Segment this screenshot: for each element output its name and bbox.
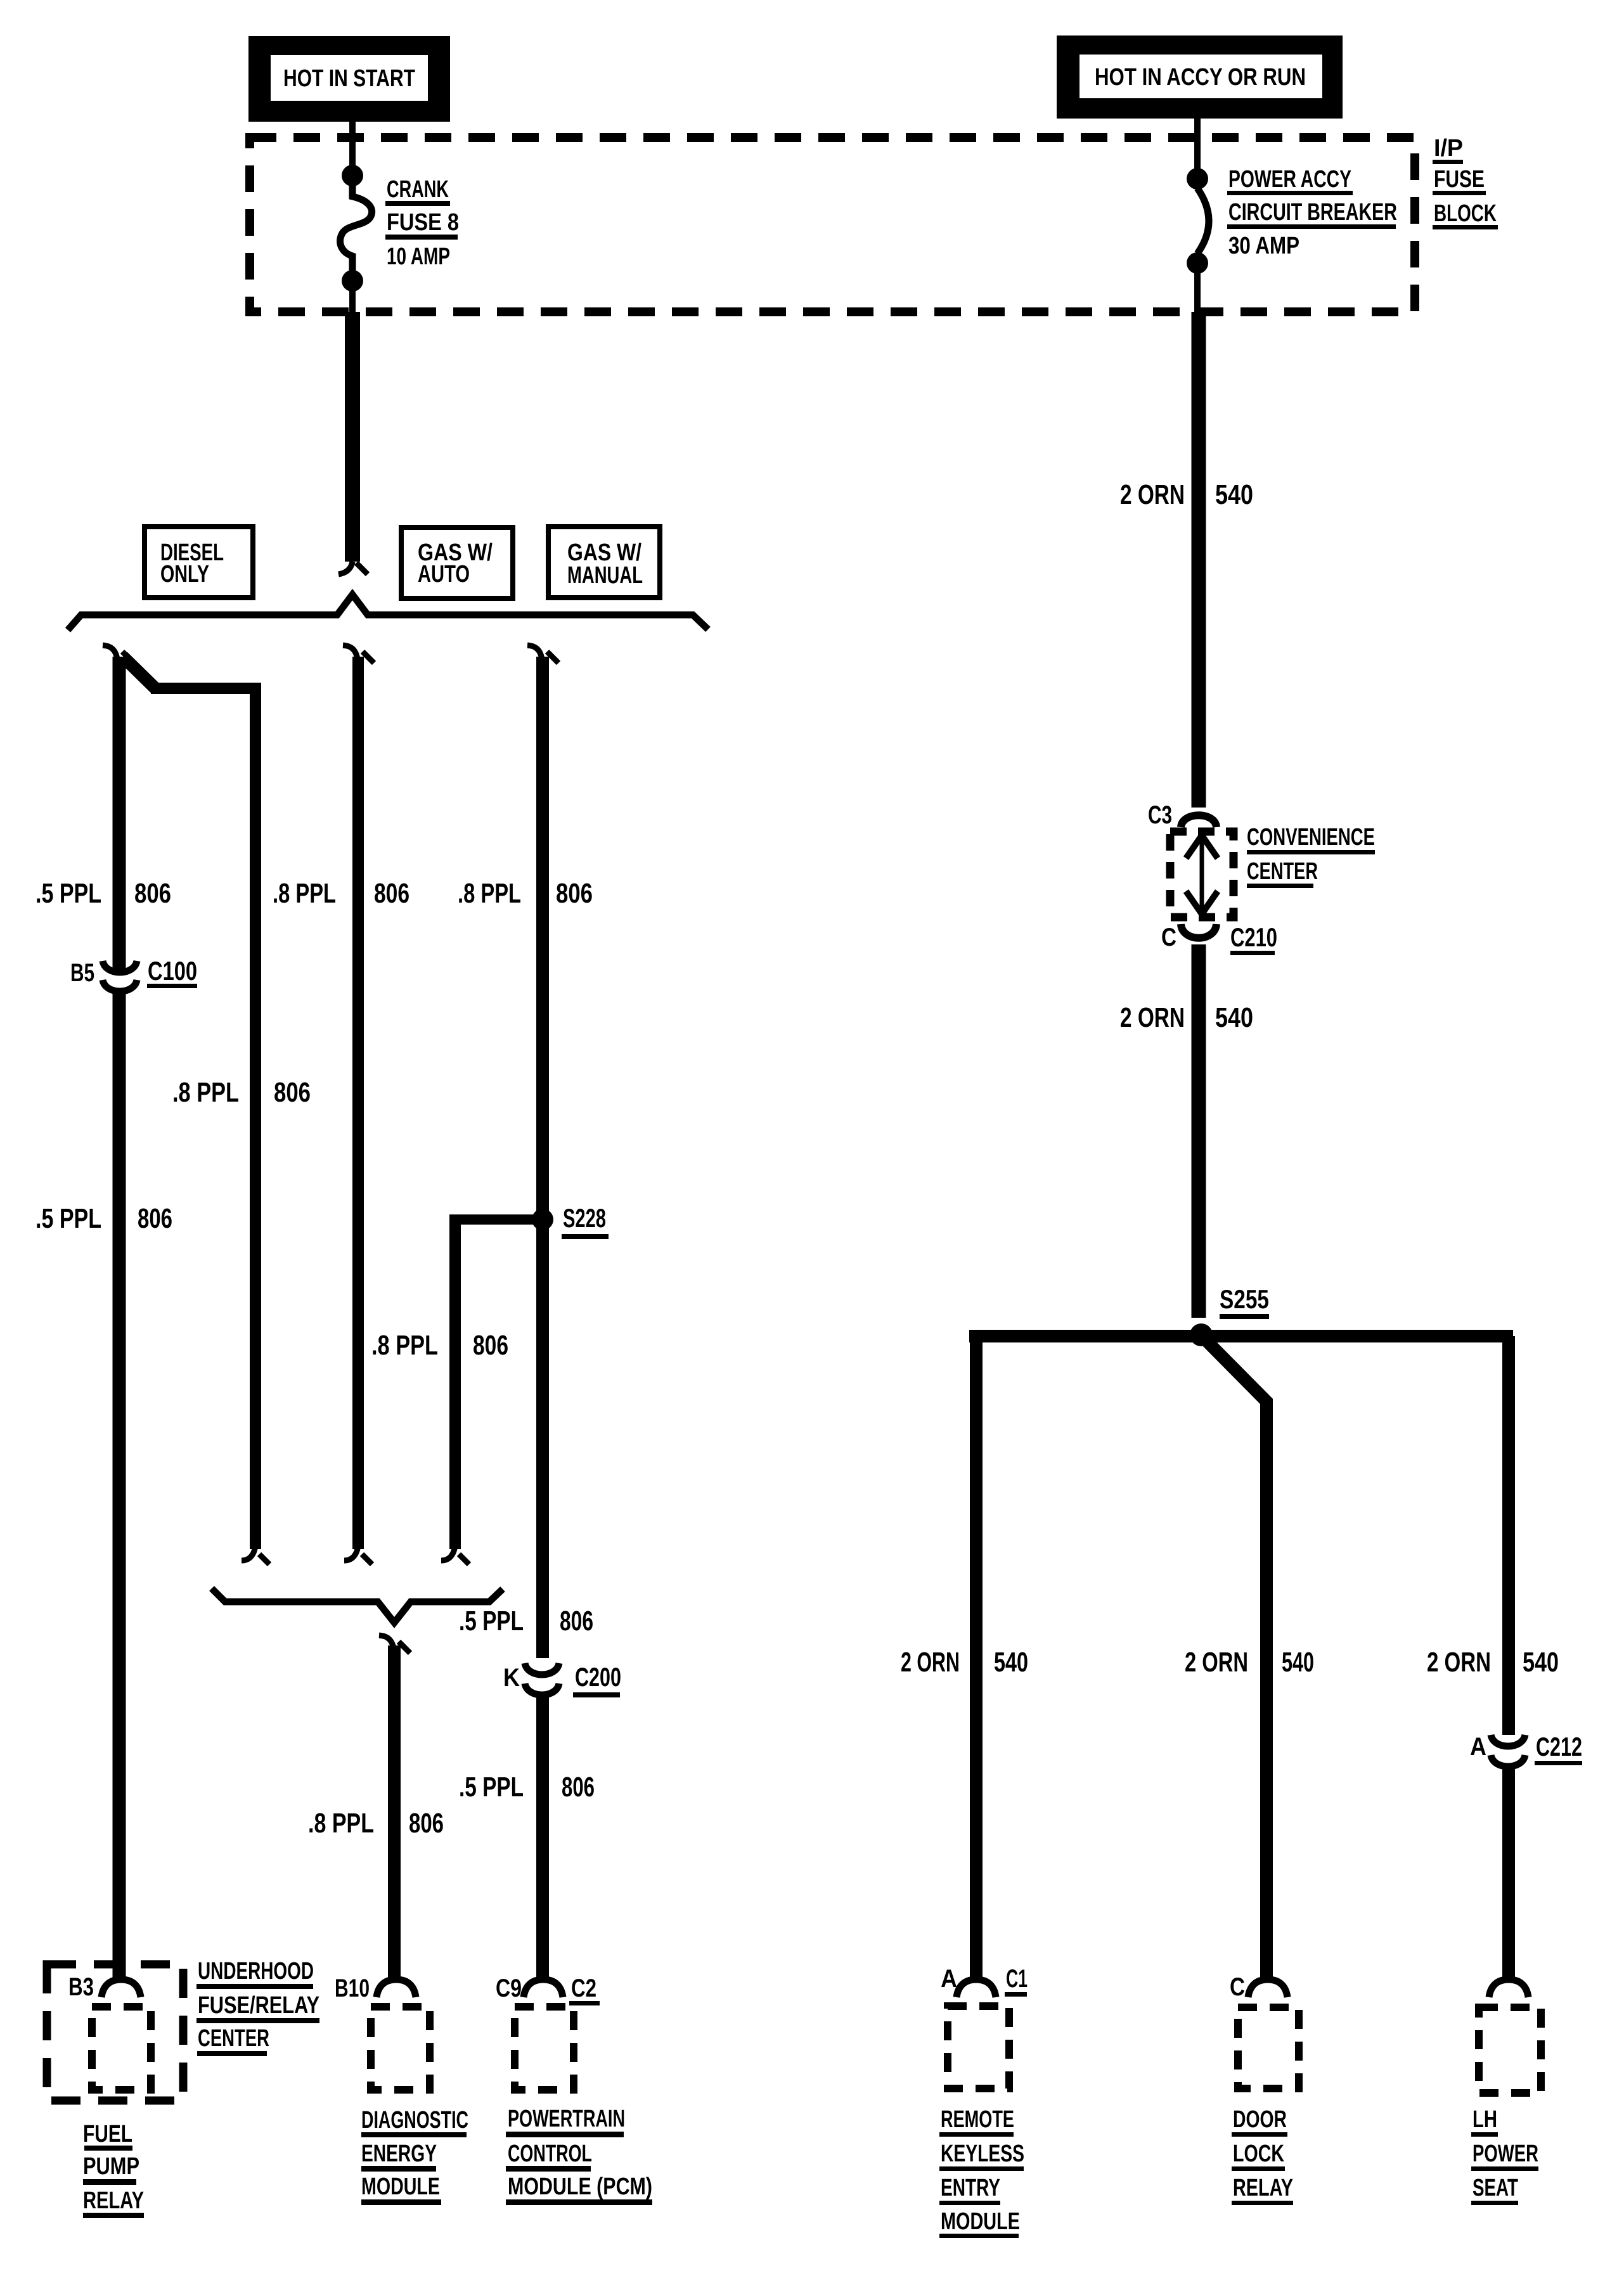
junction dot below breaker — [1187, 252, 1208, 274]
svg-text:C100: C100 — [148, 956, 197, 986]
wire S228 branch down (.8 PPL 806) — [449, 1214, 461, 1549]
svg-text:.5 PPL: .5 PPL — [459, 1772, 524, 1803]
connector bell diagnostic energy module pin B10 — [335, 1974, 416, 2002]
wire HOT IN START to crank fuse — [349, 120, 356, 167]
module label DIAGNOSTIC ENERGY MODULE — [361, 2107, 468, 2205]
module label REMOTE KEYLESS ENTRY MODULE — [939, 2106, 1024, 2238]
svg-text:UNDERHOOD: UNDERHOOD — [198, 1958, 314, 1985]
connector bell remote keyless pins A C1 — [941, 1965, 1028, 1997]
wire hook GAS W/AUTO top — [343, 645, 374, 663]
wire gas branch (.8 PPL 806) — [250, 688, 261, 1549]
power feed label HOT IN ACCY OR RUN — [1057, 35, 1343, 119]
svg-text:ENERGY: ENERGY — [361, 2140, 437, 2167]
fuse value label CRANK FUSE 8 10 AMP — [385, 176, 459, 270]
power feed label HOT IN START — [248, 36, 450, 122]
wire hook bottom gas w/auto — [344, 1545, 372, 1564]
svg-text:RELAY: RELAY — [1233, 2175, 1293, 2201]
splice dot S255 — [1190, 1323, 1213, 1346]
label .5 PPL 806 wire1 — [35, 878, 171, 909]
connector bell door lock relay pin C — [1230, 1973, 1287, 2001]
wire GAS W/AUTO (.8 PPL 806) — [352, 657, 364, 1549]
connector C212 pin A — [1470, 1732, 1582, 1767]
wire splice branch S228 horizontal — [455, 1214, 535, 1225]
svg-text:CENTER: CENTER — [1247, 858, 1318, 885]
svg-text:806: 806 — [562, 1772, 595, 1803]
svg-text:30 AMP: 30 AMP — [1228, 233, 1299, 259]
option box GAS W/ MANUAL — [548, 527, 660, 598]
block label CONVENIENCE CENTER — [1247, 824, 1375, 888]
wire S255 horizontal bus — [969, 1330, 1513, 1342]
wire DIESEL option (.5 PPL) — [113, 657, 126, 974]
svg-text:S255: S255 — [1220, 1284, 1269, 1314]
fuel pump relay inner dashed box — [92, 2007, 151, 2090]
svg-text:KEYLESS: KEYLESS — [941, 2140, 1024, 2167]
connector C100 pin B5 — [70, 956, 197, 991]
svg-text:.8 PPL: .8 PPL — [308, 1808, 374, 1839]
svg-text:RELAY: RELAY — [83, 2187, 144, 2214]
convenience center dashed box — [1170, 832, 1234, 917]
svg-text:CRANK: CRANK — [387, 176, 449, 203]
svg-text:MODULE: MODULE — [361, 2173, 440, 2200]
svg-text:B3: B3 — [68, 1973, 94, 2001]
svg-text:SEAT: SEAT — [1473, 2175, 1518, 2201]
wire hook GAS W/MANUAL top — [527, 645, 558, 663]
svg-text:806: 806 — [374, 878, 409, 909]
block label I/P FUSE BLOCK — [1433, 135, 1498, 229]
svg-text:CIRCUIT BREAKER: CIRCUIT BREAKER — [1228, 199, 1397, 226]
remote keyless entry module dashed box — [948, 2006, 1009, 2089]
wire fuse to fuse block edge — [349, 290, 356, 312]
svg-text:ONLY: ONLY — [160, 561, 209, 588]
wire breaker to fuse block edge — [1194, 273, 1201, 312]
svg-text:POWERTRAIN: POWERTRAIN — [508, 2106, 625, 2132]
label .5 PPL 806 below C200 — [459, 1772, 595, 1803]
svg-text:DOOR: DOOR — [1233, 2106, 1287, 2133]
junction dot above fuse — [342, 165, 363, 186]
connector bell LH power seat — [1489, 1979, 1528, 1997]
wire to door lock relay (diagonal) — [1208, 1342, 1266, 1981]
svg-text:540: 540 — [1282, 1647, 1314, 1678]
svg-text:S228: S228 — [563, 1203, 606, 1233]
svg-text:2 ORN: 2 ORN — [1120, 479, 1185, 510]
label .5 PPL 806 wire1 lower — [35, 1203, 172, 1234]
breaker value label POWER ACCY CIRCUIT BREAKER 30 AMP — [1227, 166, 1397, 259]
label 2 ORN 540 door lock — [1185, 1647, 1314, 1678]
wire DEM feed (.8 PPL 806) — [388, 1645, 401, 1981]
connector C3 convenience center — [1148, 801, 1216, 829]
svg-text:LH: LH — [1473, 2106, 1497, 2133]
svg-text:.8 PPL: .8 PPL — [458, 878, 521, 909]
block label UNDERHOOD FUSE/RELAY CENTER — [197, 1958, 319, 2056]
wire to LH power seat upper — [1502, 1336, 1515, 1735]
svg-text:10 AMP: 10 AMP — [387, 243, 450, 270]
wire crank feed down to options brace — [345, 312, 360, 562]
svg-text:I/P: I/P — [1434, 135, 1463, 162]
svg-text:806: 806 — [134, 878, 171, 909]
wire HOT IN ACCY to circuit breaker — [1194, 119, 1201, 171]
svg-text:HOT IN START: HOT IN START — [283, 65, 415, 92]
splice dot S228 — [532, 1209, 553, 1230]
svg-text:A: A — [941, 1965, 957, 1993]
svg-text:C3: C3 — [1148, 801, 1172, 829]
wire hook DIESEL branch top — [103, 645, 134, 663]
wire to remote keyless entry module — [970, 1336, 983, 1981]
module label POWERTRAIN CONTROL MODULE (PCM) — [506, 2106, 652, 2205]
svg-text:806: 806 — [473, 1330, 508, 1361]
svg-text:K: K — [503, 1664, 520, 1692]
svg-text:.8 PPL: .8 PPL — [371, 1330, 438, 1361]
powertrain control module dashed box — [515, 2007, 574, 2090]
underhood fuse/relay center outer dashed box — [47, 1964, 183, 2101]
svg-text:2 ORN: 2 ORN — [901, 1647, 960, 1678]
svg-text:FUSE 8: FUSE 8 — [387, 209, 459, 236]
svg-text:2 ORN: 2 ORN — [1427, 1647, 1491, 1678]
svg-text:.5 PPL: .5 PPL — [35, 1203, 101, 1234]
svg-text:CONTROL: CONTROL — [508, 2140, 592, 2167]
svg-text:540: 540 — [994, 1647, 1028, 1678]
svg-text:FUSE/RELAY: FUSE/RELAY — [198, 1992, 319, 2019]
diagnostic energy module dashed box — [371, 2007, 430, 2090]
svg-text:806: 806 — [560, 1606, 593, 1637]
fusible element double arrow — [1186, 835, 1218, 914]
svg-text:540: 540 — [1215, 1002, 1253, 1033]
svg-text:MODULE (PCM): MODULE (PCM) — [508, 2173, 652, 2200]
label .8 PPL 806 wire3 — [273, 878, 409, 909]
door lock relay dashed box — [1238, 2007, 1299, 2089]
svg-text:2 ORN: 2 ORN — [1120, 1002, 1185, 1033]
svg-text:540: 540 — [1523, 1647, 1559, 1678]
wire hook DEM feed top — [379, 1635, 410, 1653]
label .5 PPL 806 above C200 — [459, 1606, 593, 1637]
svg-text:ENTRY: ENTRY — [941, 2175, 1000, 2201]
circuit breaker POWER ACCY 30 AMP — [1197, 188, 1209, 254]
svg-text:C2: C2 — [571, 1974, 596, 2002]
wire hook bottom gas branch — [242, 1545, 269, 1564]
label .8 PPL 806 DEM feed — [308, 1808, 444, 1839]
module label LH POWER SEAT — [1471, 2106, 1538, 2205]
I/P fuse block dashed box — [250, 138, 1415, 312]
svg-text:.5 PPL: .5 PPL — [459, 1606, 524, 1637]
svg-text:AUTO: AUTO — [418, 561, 470, 588]
connector bell fuel pump relay pin B3 — [68, 1973, 141, 2001]
svg-text:FUEL: FUEL — [83, 2121, 132, 2147]
wire C212 to LH power seat — [1502, 1765, 1515, 1981]
label 2 ORN 540 upper — [1120, 479, 1253, 510]
wire branch diesel splice diagonal — [123, 657, 157, 690]
fuse CRANK FUSE 8 10 AMP — [340, 185, 372, 271]
svg-text:.8 PPL: .8 PPL — [172, 1077, 239, 1108]
label 2 ORN 540 remote keyless — [901, 1647, 1028, 1678]
svg-text:C: C — [1230, 1973, 1245, 2001]
wire end hook at brace — [338, 562, 368, 574]
wire branch horizontal to gas wire — [151, 683, 261, 694]
svg-text:2 ORN: 2 ORN — [1185, 1647, 1248, 1678]
svg-text:C200: C200 — [575, 1662, 621, 1692]
svg-text:POWER: POWER — [1473, 2140, 1538, 2167]
label .8 PPL 806 wire2 — [172, 1077, 311, 1108]
splice label S228 — [562, 1203, 609, 1239]
svg-text:806: 806 — [274, 1077, 311, 1108]
svg-text:LOCK: LOCK — [1233, 2140, 1284, 2167]
junction dot below fuse — [342, 270, 363, 292]
label .8 PPL 806 wire4 — [371, 1330, 508, 1361]
svg-text:DIAGNOSTIC: DIAGNOSTIC — [361, 2107, 468, 2134]
svg-text:A: A — [1470, 1733, 1486, 1761]
svg-text:540: 540 — [1215, 479, 1253, 510]
options brace bottom — [212, 1588, 503, 1623]
svg-text:CENTER: CENTER — [198, 2025, 269, 2052]
wire C210 to S255 (2 ORN 540) — [1192, 944, 1206, 1318]
svg-text:POWER ACCY: POWER ACCY — [1228, 166, 1351, 193]
label 2 ORN 540 power seat — [1427, 1647, 1559, 1678]
svg-text:MANUAL: MANUAL — [567, 562, 643, 589]
connector C200 pin K — [503, 1662, 621, 1697]
svg-text:806: 806 — [138, 1203, 172, 1234]
svg-text:PUMP: PUMP — [83, 2153, 139, 2180]
svg-text:FUSE: FUSE — [1434, 166, 1485, 193]
svg-text:C210: C210 — [1230, 922, 1277, 952]
wire hook bottom S228 branch — [441, 1545, 469, 1564]
svg-text:BLOCK: BLOCK — [1434, 200, 1497, 227]
wire C100 to fuel pump relay (.5 PPL) — [113, 991, 126, 1981]
svg-text:REMOTE: REMOTE — [941, 2106, 1014, 2133]
svg-text:B5: B5 — [70, 959, 94, 987]
svg-text:B10: B10 — [335, 1974, 370, 2002]
junction dot above breaker — [1187, 168, 1208, 190]
svg-text:CONVENIENCE: CONVENIENCE — [1247, 824, 1375, 851]
label .8 PPL 806 wire5 — [458, 878, 593, 909]
svg-text:806: 806 — [556, 878, 593, 909]
svg-text:.5 PPL: .5 PPL — [35, 878, 101, 909]
option box DIESEL ONLY — [145, 527, 253, 598]
wire C200 to PCM (.5 PPL) — [536, 1694, 549, 1981]
connector C210 pin C — [1161, 922, 1277, 955]
splice label S255 — [1220, 1284, 1269, 1319]
svg-text:C: C — [1161, 924, 1176, 951]
svg-text:C212: C212 — [1536, 1732, 1582, 1761]
LH power seat dashed box — [1479, 2007, 1541, 2093]
svg-text:C9: C9 — [496, 1974, 522, 2002]
svg-text:MODULE: MODULE — [941, 2208, 1020, 2235]
module label FUEL PUMP RELAY — [83, 2121, 144, 2218]
svg-text:806: 806 — [409, 1808, 444, 1839]
options brace top — [68, 595, 708, 630]
wire 2 ORN 540 feed down right side — [1192, 312, 1206, 808]
svg-text:HOT IN ACCY OR RUN: HOT IN ACCY OR RUN — [1095, 64, 1306, 91]
svg-text:.8 PPL: .8 PPL — [273, 878, 336, 909]
connector bell PCM pins C9 C2 — [496, 1974, 600, 2005]
svg-text:C1: C1 — [1006, 1965, 1028, 1993]
module label DOOR LOCK RELAY — [1232, 2106, 1293, 2205]
label 2 ORN 540 middle — [1120, 1002, 1253, 1033]
option box GAS W/ AUTO — [401, 527, 513, 598]
wire GAS W/MANUAL (.8 PPL 806) — [536, 657, 549, 1658]
